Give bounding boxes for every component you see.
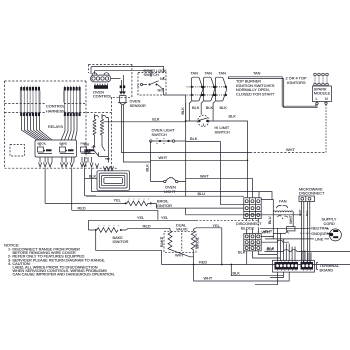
svg-text:BAKE: BAKE xyxy=(160,236,164,247)
coil bake xyxy=(168,231,172,250)
spark module xyxy=(313,73,332,104)
svg-text:SWITCH: SWITCH xyxy=(144,73,159,77)
harness nest rings xyxy=(97,171,129,191)
svg-text:LIGHT: LIGHT xyxy=(164,190,176,194)
wire broil out xyxy=(152,203,302,214)
svg-text:OVEN: OVEN xyxy=(165,186,176,190)
svg-text:HI LIMIT: HI LIMIT xyxy=(215,126,230,130)
svg-text:WHT: WHT xyxy=(289,215,293,224)
node TERMINAL BOARD xyxy=(317,263,319,270)
disconnect block lower xyxy=(244,234,261,251)
svg-text:VALVE: VALVE xyxy=(176,228,188,232)
svg-text:MODULE: MODULE xyxy=(314,92,331,96)
svg-text:YEL: YEL xyxy=(161,216,169,220)
bake ignitor xyxy=(89,220,171,244)
svg-text:TAN: TAN xyxy=(191,71,199,75)
svg-text:WHT: WHT xyxy=(286,148,295,152)
svg-text:OVEN LIGHT: OVEN LIGHT xyxy=(152,129,176,133)
svg-text:BLK: BLK xyxy=(229,115,237,119)
disconnect block upper xyxy=(244,198,261,219)
switch S1 xyxy=(191,77,204,110)
svg-text:BLK: BLK xyxy=(267,248,275,252)
svg-text:CAN CAUSE IMPROPER AND DANGERO: CAN CAUSE IMPROPER AND DANGEROUS OPERATI… xyxy=(13,272,115,277)
svg-text:BROIL: BROIL xyxy=(38,142,47,146)
node CONTROL HARNESS xyxy=(45,103,66,115)
relay BAKE xyxy=(60,142,75,154)
relay FAN xyxy=(81,142,96,154)
svg-text:DISCONNECT: DISCONNECT xyxy=(236,222,262,226)
svg-text:BLK: BLK xyxy=(192,106,200,110)
wire door lock to hi-limit bus xyxy=(164,95,186,121)
broil ignitor xyxy=(45,168,172,208)
svg-text:WHT: WHT xyxy=(298,209,302,216)
node TOP BURNER note xyxy=(236,79,275,96)
svg-text:IGNITOR: IGNITOR xyxy=(156,204,172,208)
svg-text:BLK: BLK xyxy=(89,174,97,178)
wire LINE xyxy=(314,237,324,241)
oven control connector xyxy=(91,73,111,82)
door lock switch box xyxy=(138,73,166,96)
wire ignitor loop xyxy=(282,77,317,108)
svg-text:SWITCH: SWITCH xyxy=(152,133,167,137)
svg-text:WHT: WHT xyxy=(262,230,271,234)
svg-text:BLU: BLU xyxy=(198,192,206,196)
svg-text:2 OR 4 TOP: 2 OR 4 TOP xyxy=(286,76,307,80)
NOTICE text block xyxy=(4,243,115,277)
svg-text:YEL: YEL xyxy=(213,224,221,228)
svg-text:C: C xyxy=(137,83,139,87)
svg-text:TOP BURNER: TOP BURNER xyxy=(236,79,261,83)
svg-text:RED: RED xyxy=(143,225,151,229)
svg-text:SENSOR: SENSOR xyxy=(130,104,146,108)
connector bundle P1 xyxy=(20,86,52,140)
svg-text:LINE: LINE xyxy=(315,238,324,242)
svg-text:SUPPLY: SUPPLY xyxy=(322,218,337,222)
microwave disconnect xyxy=(298,188,325,262)
svg-text:BLK: BLK xyxy=(152,117,160,121)
svg-text:FAN: FAN xyxy=(279,200,287,204)
svg-text:BLK: BLK xyxy=(220,106,228,110)
svg-text:YEL: YEL xyxy=(137,216,145,220)
VAR coils xyxy=(93,114,109,163)
svg-text:DISCONNECT: DISCONNECT xyxy=(299,192,325,196)
small dashed box lower-left xyxy=(10,145,25,157)
svg-text:BLU: BLU xyxy=(268,216,272,224)
wire sensor return 2 xyxy=(124,105,151,162)
wire oven control to door lock xyxy=(91,67,164,78)
svg-text:WHT: WHT xyxy=(204,277,213,281)
svg-text:BLK: BLK xyxy=(238,251,246,255)
oven sensor symbol xyxy=(118,85,127,104)
svg-text:CONTROL: CONTROL xyxy=(93,95,113,99)
switch S3 xyxy=(214,77,227,110)
svg-text:GND(GRN): GND(GRN) xyxy=(311,232,331,236)
wire terminal board bottom leads xyxy=(255,272,289,285)
supply plug xyxy=(329,229,341,241)
svg-text:BLK: BLK xyxy=(181,107,185,115)
svg-text:RELAYS: RELAYS xyxy=(48,125,63,129)
oven control pin strip xyxy=(94,84,108,89)
wire oven light switch feed xyxy=(152,117,159,121)
wire to disconnect xyxy=(200,174,209,178)
svg-text:TERMINAL: TERMINAL xyxy=(320,264,340,268)
relay board box xyxy=(35,140,77,157)
wire bake return xyxy=(96,231,162,265)
wire GND xyxy=(311,232,328,236)
svg-text:BLK: BLK xyxy=(146,164,150,172)
svg-text:BAKE: BAKE xyxy=(60,142,68,146)
wire BLU row xyxy=(197,192,206,196)
svg-text:VAR: VAR xyxy=(84,143,90,147)
svg-text:BLK: BLK xyxy=(190,137,198,141)
switch S2 xyxy=(202,77,215,110)
wire mechanical link dashes xyxy=(187,87,191,95)
svg-text:TAN: TAN xyxy=(205,71,213,75)
wire sensor return WHT xyxy=(122,105,251,153)
svg-text:BLK: BLK xyxy=(206,106,214,110)
wires into terminal board xyxy=(262,228,350,261)
svg-text:NC: NC xyxy=(160,77,166,81)
wire TAN bus xyxy=(228,77,283,79)
svg-text:N: N xyxy=(325,97,328,101)
svg-text:RED: RED xyxy=(199,261,207,265)
oven light lamp xyxy=(151,177,186,182)
svg-text:HARNESS: HARNESS xyxy=(46,110,65,114)
connector arrows at console boundary xyxy=(39,163,114,171)
svg-text:IGNITORS: IGNITORS xyxy=(287,81,306,85)
svg-text:BOARD: BOARD xyxy=(320,268,334,272)
svg-text:IGNITOR: IGNITOR xyxy=(113,240,129,244)
door lock contacts xyxy=(137,77,165,95)
dual gas valve xyxy=(160,224,200,258)
VAR box xyxy=(85,142,110,160)
svg-text:NORMALLY OPEN,: NORMALLY OPEN, xyxy=(236,88,270,92)
wire spark module N (GRY) xyxy=(325,105,327,153)
relay BROIL xyxy=(38,142,53,154)
svg-text:TAN: TAN xyxy=(253,71,261,75)
svg-text:YEL: YEL xyxy=(114,199,122,203)
wire bottom RED xyxy=(198,261,207,265)
svg-text:WHT: WHT xyxy=(159,156,168,160)
connector bundle P2 xyxy=(61,86,81,140)
wire oven control to sensor xyxy=(111,78,121,80)
svg-text:SWITCH: SWITCH xyxy=(215,130,230,134)
svg-text:BLK: BLK xyxy=(233,272,241,276)
svg-text:CLOSED FOR START: CLOSED FOR START xyxy=(236,93,275,97)
svg-text:BROIL: BROIL xyxy=(157,200,169,204)
svg-text:CONTROL: CONTROL xyxy=(46,105,66,109)
oven light switch xyxy=(150,129,186,144)
svg-text:BROIL: BROIL xyxy=(195,236,199,248)
wire BLK bus xyxy=(185,103,187,196)
svg-text:DOOR LOCK: DOOR LOCK xyxy=(144,69,168,73)
svg-text:NO: NO xyxy=(158,89,164,93)
svg-text:BLK: BLK xyxy=(305,210,309,216)
top burner ignition switches xyxy=(191,71,261,75)
wire disconnect leads xyxy=(247,236,289,264)
console dashed outline xyxy=(5,64,132,168)
wire switch bottoms to BLK bus xyxy=(189,101,215,121)
coil broil xyxy=(191,231,195,250)
wire YEL row 2 xyxy=(136,216,145,220)
hi limit switch xyxy=(198,115,209,126)
svg-text:TAN: TAN xyxy=(219,71,227,75)
wires relays to console edge xyxy=(40,157,92,163)
svg-text:IGNITION SWITCHES: IGNITION SWITCHES xyxy=(236,84,275,88)
fan motor xyxy=(261,200,295,239)
svg-text:CORD: CORD xyxy=(324,222,336,226)
terminal board xyxy=(273,260,315,272)
